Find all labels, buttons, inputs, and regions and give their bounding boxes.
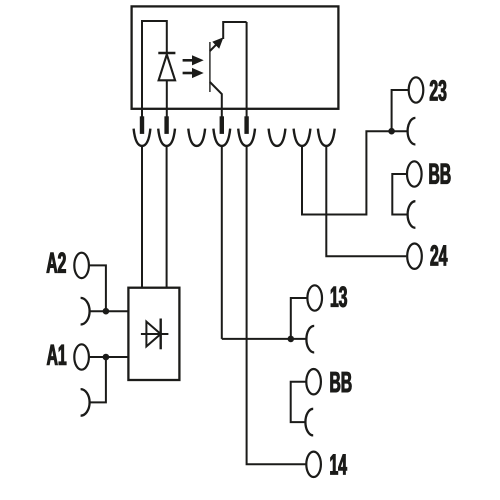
plug pin 2	[164, 116, 168, 134]
socket 4	[213, 129, 230, 146]
wire pin5 down to 14	[247, 146, 306, 464]
wire 13 bracket	[291, 298, 308, 339]
socket 7	[294, 129, 311, 146]
phototransistor Q1 collector	[210, 22, 247, 51]
socket 3 (empty)	[188, 129, 205, 146]
rectifier box	[128, 288, 179, 380]
light arrow 1	[183, 55, 204, 65]
socket A2	[81, 298, 90, 325]
plug pin 5	[244, 116, 248, 134]
wire pin1 to rectifier	[141, 146, 143, 288]
wire pin8 to 24	[326, 146, 406, 256]
terminal 24 circle	[407, 244, 422, 269]
phototransistor Q1 base	[209, 42, 211, 92]
wire pin7 to junction	[302, 131, 408, 214]
terminal 14 circle	[306, 452, 321, 477]
wire LED loop left	[142, 21, 167, 117]
socket 8	[318, 129, 335, 146]
wire pin2 to rectifier	[166, 146, 168, 288]
wire BB mid bracket	[291, 382, 307, 422]
socket 2	[158, 129, 175, 146]
label BB mid	[331, 372, 352, 392]
label 13	[331, 286, 347, 307]
label 14	[330, 454, 346, 474]
plug pin 1	[140, 116, 144, 134]
LED D1	[158, 53, 175, 80]
socket A1	[81, 389, 90, 416]
socket 1	[134, 129, 151, 146]
terminal 23 circle	[409, 77, 424, 102]
socket BB mid	[305, 409, 313, 436]
label 23	[430, 80, 446, 101]
socket 5	[238, 129, 255, 146]
wire pin4 down	[221, 146, 223, 339]
wire 23	[392, 90, 409, 131]
junction A1	[103, 354, 110, 361]
junction 13	[288, 336, 295, 343]
socket 23	[408, 118, 416, 145]
rectifier diode D2	[141, 319, 169, 350]
light arrow 2	[183, 68, 204, 78]
socket 6 (empty)	[269, 129, 286, 146]
label BB right	[430, 164, 451, 184]
wire to 13 socket	[222, 338, 307, 340]
label 24	[431, 245, 448, 265]
terminal BB right circle	[407, 161, 422, 186]
wire A2	[89, 265, 106, 311]
plug pin 4	[220, 116, 224, 134]
wire LED anode down	[166, 80, 168, 116]
terminal BB mid circle	[306, 369, 321, 394]
label A2	[47, 252, 66, 272]
junction 23	[388, 128, 395, 135]
optocoupler box U1	[132, 6, 339, 108]
phototransistor Q1 emitter	[210, 82, 222, 117]
junction A2	[103, 308, 110, 315]
wire BB right bracket	[392, 174, 407, 215]
wire A1 to socket	[90, 357, 106, 402]
wire A1	[89, 356, 128, 358]
socket 13	[306, 326, 314, 353]
label A1	[47, 345, 66, 365]
terminal 13 circle	[307, 285, 322, 310]
terminal A2 circle	[74, 253, 89, 278]
terminal A1 circle	[74, 344, 89, 369]
wire A2 socket to box	[90, 310, 129, 312]
socket BB right	[408, 201, 416, 228]
wire collector loop right	[246, 22, 248, 117]
